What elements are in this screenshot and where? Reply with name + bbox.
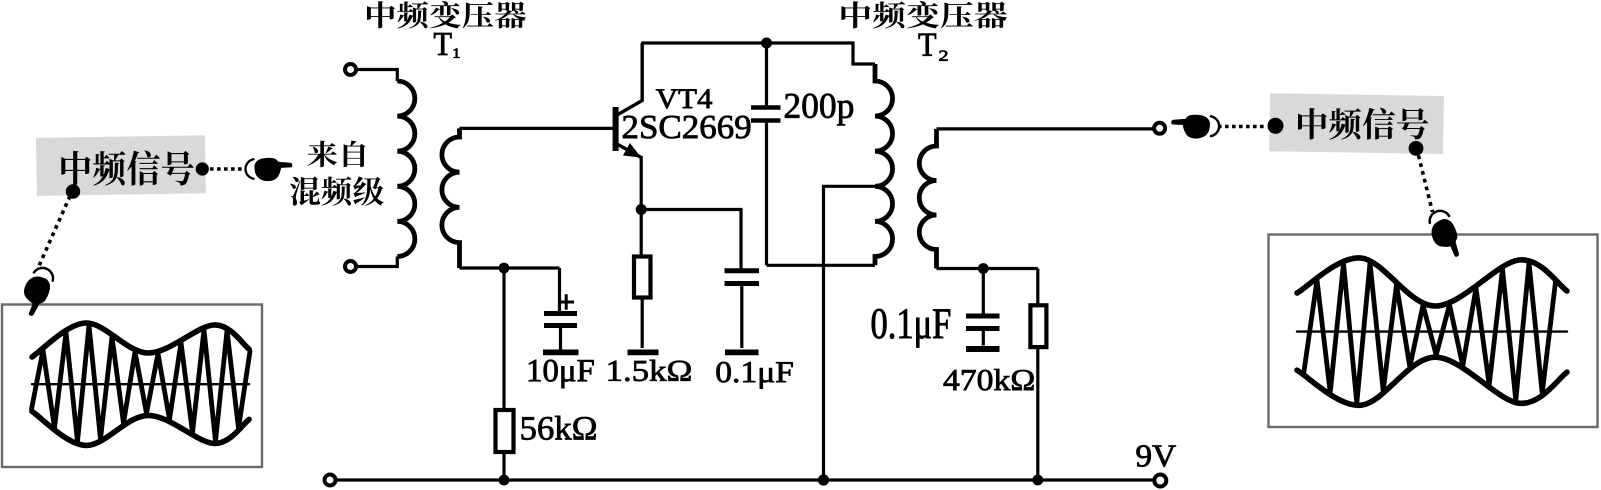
- wire T2 primary tap to ground rail: [824, 186, 876, 480]
- wire dotted leader (right mid): [1218, 125, 1266, 128]
- icon pointing hand (left lower, points down-left): [15, 264, 58, 319]
- label IF transformer title (right) 中频变压器: [841, 1, 1007, 28]
- icon pointing hand (right lower, points down-right): [1425, 207, 1465, 262]
- icon pointing hand (left, points right): [245, 158, 292, 181]
- wire bottom supply rail: [337, 478, 1153, 481]
- label 0.1μF (emitter bypass): [716, 362, 792, 389]
- node callout dot (right box left): [1268, 118, 1284, 134]
- wire output from T2 secondary: [937, 127, 1153, 130]
- label 9V: [1137, 445, 1176, 466]
- inductor T2 secondary winding: [919, 129, 936, 269]
- label T2 letter T: [919, 34, 936, 56]
- waveform AM signal (right): [1297, 258, 1567, 405]
- node top rail junction dot: [761, 38, 772, 49]
- label 中频信号 (left): [61, 151, 193, 186]
- label 2SC2669: [623, 116, 750, 139]
- node rail junction dot (56kΩ): [499, 475, 510, 486]
- resistor R 56kΩ: [496, 268, 514, 480]
- label 来自 (line1): [307, 141, 365, 168]
- node T2 secondary bottom junction dot: [978, 263, 989, 274]
- resistor R 470kΩ: [1030, 269, 1046, 481]
- node rail junction dot (470kΩ): [1032, 475, 1043, 486]
- terminal input bottom: [345, 261, 356, 272]
- callout box IF signal (left): [36, 135, 206, 196]
- node rail junction dot (T2 tap): [818, 474, 829, 485]
- waveform AM signal (left): [32, 323, 251, 445]
- callout box IF signal (right): [1269, 93, 1444, 154]
- label 200p: [785, 94, 853, 126]
- capacitor C 0.1μF emitter bypass: [725, 271, 760, 353]
- node callout dot (left box bottom): [66, 184, 80, 198]
- icon pointing hand (right, points left): [1171, 115, 1219, 139]
- label 10μF: [529, 360, 594, 388]
- label 混频级 (line2): [290, 176, 384, 205]
- wire emitter junction to bypass cap: [647, 210, 742, 271]
- wire 200p bottom to T2 primary bottom: [767, 264, 876, 267]
- wire T1 secondary bottom to node A: [460, 266, 560, 269]
- resistor R 1.5kΩ: [628, 210, 659, 353]
- inductor T2 primary winding: [875, 64, 893, 265]
- transistor VT4 2SC2669: [613, 43, 643, 210]
- terminal input top: [345, 64, 356, 75]
- wire T2 secondary bottom: [937, 267, 1038, 270]
- wire dotted leader (left mid): [210, 167, 246, 170]
- polarity plus sign of 10μF: [559, 294, 575, 310]
- capacitor C 200p: [751, 43, 781, 265]
- scope box left (waveform frame): [2, 305, 262, 468]
- wire top rail collector to T2: [641, 43, 875, 64]
- label 中频信号 (right): [1298, 108, 1428, 140]
- label T1 subscript 1: [454, 49, 460, 58]
- node callout dot (left box right): [196, 162, 209, 175]
- wire dotted leader (right down): [1419, 156, 1433, 213]
- wire dotted leader (left down): [39, 196, 71, 267]
- terminal output: [1154, 123, 1165, 134]
- label 1.5kΩ: [609, 360, 691, 381]
- capacitor C 10μF electrolytic: [543, 268, 579, 352]
- inductor T1 primary winding: [397, 81, 415, 257]
- wire base wire from T1 secondary: [460, 127, 613, 130]
- label VT4: [656, 89, 712, 108]
- wire input top to T1 primary: [357, 70, 398, 82]
- label T1 letter T: [434, 33, 451, 55]
- wire T1 primary bottom to terminal: [357, 257, 398, 267]
- node A junction dot: [499, 263, 510, 274]
- node callout dot (right box bottom): [1409, 141, 1424, 156]
- terminal 9V supply: [1154, 475, 1166, 487]
- inductor T1 secondary winding: [442, 128, 460, 268]
- label 0.1μF (right): [872, 309, 950, 348]
- label IF transformer title (left) 中频变压器: [367, 1, 526, 28]
- terminal bottom-left: [325, 475, 336, 486]
- node emitter junction dot: [636, 204, 647, 215]
- label 56kΩ: [522, 416, 596, 440]
- label 470kΩ: [944, 369, 1034, 390]
- scope box right (waveform frame): [1269, 235, 1598, 428]
- capacitor C 0.1μF (right): [966, 269, 1000, 350]
- label T2 subscript 2: [939, 51, 947, 61]
